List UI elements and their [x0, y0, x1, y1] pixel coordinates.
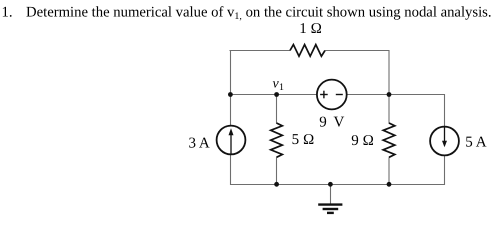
svg-text:5 Ω: 5 Ω — [292, 132, 315, 148]
wire: 9-ohm branch lower — [388, 157, 390, 184]
3A arrow (up) — [230, 134, 232, 154]
wire: far right vertical lower (5A source to bottom wire) — [444, 155, 446, 185]
svg-text:3 A: 3 A — [189, 136, 210, 152]
wire: left vertical upper (top wire to middle wire) — [230, 50, 232, 95]
resistor (5 ohm) vertical zigzag — [271, 123, 283, 157]
svg-text:1.: 1. — [2, 5, 13, 21]
ground symbol bars — [318, 205, 342, 213]
svg-text:1: 1 — [279, 82, 284, 93]
current source I1 (3 A) circle — [217, 126, 246, 155]
5A arrow (down) — [444, 128, 446, 143]
node dot: 5-ohm bottom junction — [274, 182, 279, 187]
resistor R (1 ohm) horizontal zigzag — [290, 45, 325, 57]
wire: right vertical of top loop — [388, 50, 390, 95]
wire: 9-ohm branch upper — [388, 95, 390, 124]
wire: left vertical middle (middle wire to 3A source top) — [230, 95, 232, 126]
wire: top wire right segment — [325, 50, 389, 52]
node dot: ground junction — [328, 182, 333, 187]
current source I2 (5 A) circle — [430, 127, 459, 156]
wire: far right vertical upper (middle wire to 5A source) — [444, 94, 446, 127]
node dot: right middle junction — [387, 92, 392, 97]
voltage source plus sign — [320, 91, 328, 99]
problem statement text — [2, 5, 492, 23]
wire: 5-ohm branch lower — [276, 157, 278, 184]
node dot: left middle junction — [228, 92, 233, 97]
wire: ground stem — [330, 185, 332, 205]
wire: left vertical lower (3A source bottom to bottom wire) — [230, 154, 232, 185]
wire: top wire left segment — [230, 50, 291, 52]
svg-text:9 V: 9 V — [319, 115, 344, 131]
node dot: 9-ohm bottom junction — [387, 182, 392, 187]
wire: bottom wire — [230, 184, 445, 186]
wire: middle wire right segment — [347, 94, 445, 96]
voltage source minus sign — [336, 94, 343, 96]
resistor (9 ohm) vertical zigzag — [383, 123, 395, 157]
wire: middle wire left segment — [230, 94, 317, 96]
svg-text:1 Ω: 1 Ω — [299, 21, 322, 37]
svg-text:5 A: 5 A — [465, 135, 486, 151]
node dot: v1 junction — [274, 92, 279, 97]
wire: 5-ohm branch upper — [276, 95, 278, 124]
voltage source (9 V) circle — [317, 80, 347, 110]
svg-text:Determine the numerical value: Determine the numerical value of v1, on … — [26, 5, 492, 23]
svg-text:9 Ω: 9 Ω — [351, 133, 374, 149]
